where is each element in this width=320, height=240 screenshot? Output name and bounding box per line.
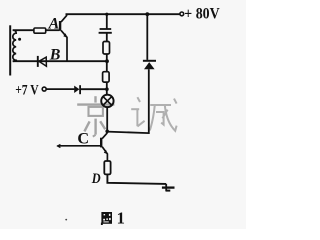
base wire C [57, 145, 100, 147]
wire [106, 82, 108, 94]
node emitter wire [105, 59, 109, 63]
resistor D [104, 161, 110, 174]
svg-text:B: B [49, 47, 61, 64]
node top cap branch [105, 13, 108, 16]
capacitor [100, 28, 112, 30]
svg-text:1: 1 [117, 209, 125, 228]
polarity dot [18, 38, 21, 41]
speck [65, 219, 67, 221]
transformer core [9, 25, 11, 75]
wire: +7V to diode [46, 88, 74, 90]
node top diode branch [145, 12, 149, 16]
watermark 京 [77, 96, 114, 136]
wire: winding top to resistor [13, 29, 34, 31]
transistor A [59, 21, 61, 31]
node 7V wire [105, 87, 109, 91]
svg-text:A: A [48, 15, 60, 32]
resistor (base) [34, 28, 46, 33]
node collector [105, 130, 109, 134]
transistor C [100, 138, 102, 148]
wire: D to ground run [107, 174, 166, 184]
resistor R2 [103, 72, 110, 82]
svg-text:+7 V: +7 V [15, 81, 39, 98]
diode (right branch) [143, 60, 156, 62]
terminal +7V [42, 87, 46, 91]
watermark 诚 [131, 97, 176, 131]
ground [165, 184, 167, 191]
caption 图 [101, 212, 112, 225]
top wire [66, 13, 181, 15]
wire: cap branch top lead [106, 14, 108, 29]
transformer winding [13, 30, 16, 61]
resistor R1 [103, 42, 110, 55]
diode (7V line) [74, 86, 79, 93]
wire: diode down and to collector node [107, 69, 149, 133]
terminal +80V [180, 12, 184, 16]
wire: diode to lamp node [80, 88, 107, 90]
wire: lamp to collector node [106, 107, 108, 131]
svg-text:C: C [77, 130, 89, 148]
wire: winding bottom run [13, 60, 107, 62]
svg-text:+ 80V: + 80V [184, 6, 220, 23]
svg-text:D: D [91, 170, 101, 186]
wire [106, 54, 108, 72]
diode B [37, 56, 39, 67]
wire: resistor to base A [46, 29, 60, 31]
right branch vertical [146, 14, 148, 60]
lamp [101, 95, 113, 107]
